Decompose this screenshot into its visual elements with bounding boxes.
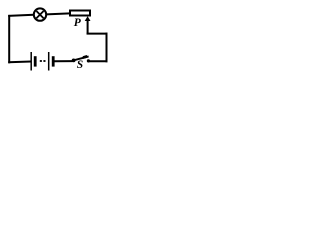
switch blade tip knob bbox=[83, 56, 87, 57]
wire left vertical bbox=[8, 15, 10, 63]
wire rheostat slider to right corner bbox=[87, 33, 108, 35]
wire bottom-left horizontal bbox=[8, 61, 31, 64]
svg-text:P: P bbox=[74, 17, 82, 29]
switch right contact dot bbox=[87, 59, 90, 62]
battery inter-cell dash 2 bbox=[43, 60, 45, 62]
battery cell 2 short thick plate bbox=[52, 56, 55, 66]
wire lamp to rheostat bbox=[46, 13, 70, 14]
wire top-left horizontal bbox=[8, 15, 34, 16]
lamp bbox=[34, 8, 46, 20]
wire right vertical bbox=[106, 33, 108, 63]
switch blade bbox=[74, 56, 89, 60]
battery cell 2 long plate bbox=[48, 52, 50, 71]
battery cell 1 short thick plate bbox=[34, 56, 37, 66]
wire bottom-right horizontal bbox=[88, 60, 108, 62]
svg-text:S: S bbox=[77, 59, 83, 71]
rheostat slider arrow bbox=[85, 16, 91, 34]
switch pivot dot bbox=[72, 59, 76, 63]
wire battery to switch bbox=[55, 60, 73, 62]
rheostat P body bbox=[70, 11, 90, 16]
battery cell 1 long plate bbox=[30, 52, 32, 71]
battery inter-cell dash 1 bbox=[40, 60, 42, 62]
